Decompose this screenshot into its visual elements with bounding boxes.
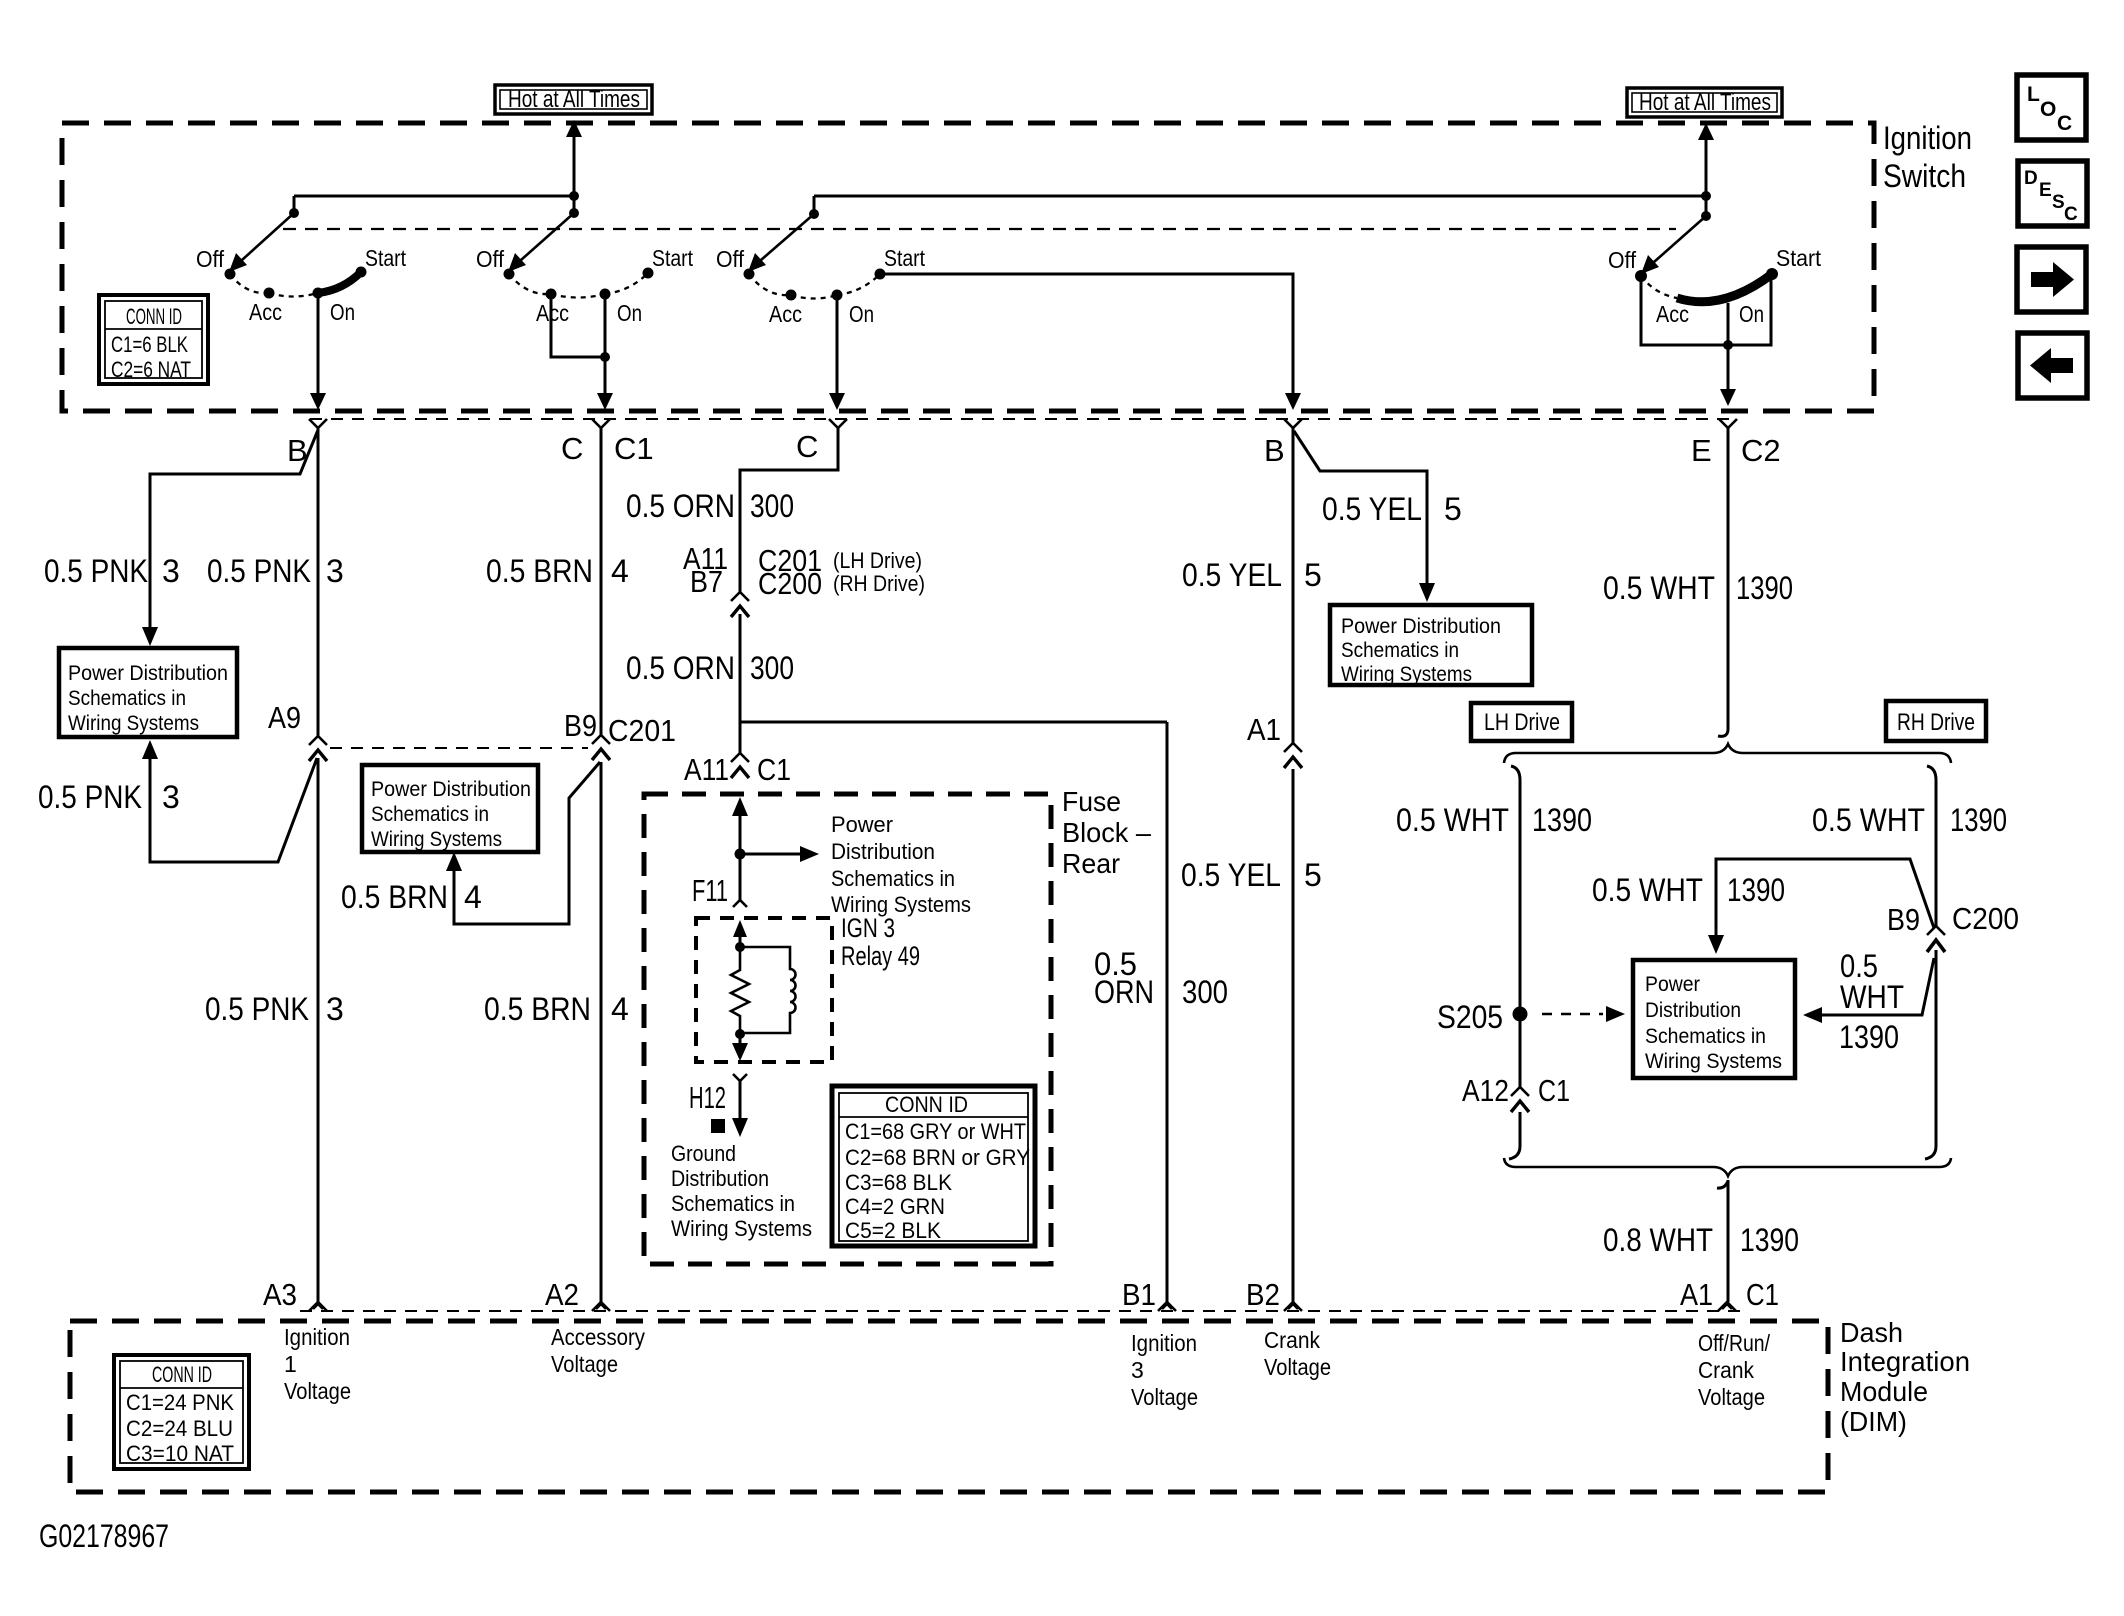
- svg-text:A12: A12: [1462, 1073, 1509, 1108]
- svg-text:A11: A11: [684, 752, 729, 787]
- svg-text:0.5 BRN: 0.5 BRN: [341, 879, 448, 915]
- wire: crank drop arrow at pin B: [1285, 393, 1301, 410]
- connector A12/C1: [1462, 1073, 1570, 1112]
- wire: horizontal bus y196 switch1 to feed1: [294, 195, 574, 198]
- svg-text:A9: A9: [268, 700, 301, 735]
- node S205: [1513, 1007, 1528, 1022]
- svg-text:0.5 WHT: 0.5 WHT: [1812, 802, 1925, 838]
- svg-text:G02178967: G02178967: [39, 1518, 169, 1554]
- Power Distribution box 2: [362, 765, 538, 852]
- wire: SW3 Start contact across to crank drop: [880, 274, 1293, 396]
- svg-text:CONN ID: CONN ID: [885, 1092, 968, 1117]
- svg-text:C: C: [2057, 112, 2072, 135]
- svg-text:1390: 1390: [1950, 802, 2007, 838]
- svg-text:C1: C1: [757, 752, 791, 787]
- node relay top junction: [735, 942, 745, 952]
- svg-text:C: C: [2064, 204, 2078, 225]
- svg-text:3: 3: [326, 553, 344, 589]
- svg-text:C5=2 BLK: C5=2 BLK: [845, 1218, 941, 1243]
- connector H12: [689, 1074, 747, 1115]
- wire: SW2 On contact down to pin C arrow: [597, 294, 613, 410]
- connector A1 (crank run): [1247, 712, 1302, 768]
- svg-text:B1: B1: [1122, 1277, 1156, 1312]
- icon box LOC: [2017, 75, 2086, 140]
- connector pin A3: [263, 1277, 327, 1312]
- ground marker square: [711, 1119, 725, 1133]
- svg-text:Power Distribution: Power Distribution: [371, 778, 531, 801]
- connector pin A1/C1: [1680, 1277, 1779, 1312]
- svg-text:0.5 ORN: 0.5 ORN: [626, 650, 735, 686]
- svg-text:Wiring Systems: Wiring Systems: [1341, 663, 1472, 686]
- svg-text:Voltage: Voltage: [1698, 1384, 1765, 1410]
- Dash Integration Module dashed box: [70, 1321, 1828, 1492]
- wire: horizontal bus y196 switch3 to feed2: [814, 195, 1706, 198]
- svg-text:Power: Power: [831, 812, 893, 837]
- connector pin B (crank): [1264, 419, 1302, 468]
- wire: SW1 On contact down to pin B arrow: [310, 293, 326, 410]
- caption Off/Run/ Crank Voltage: [1698, 1330, 1771, 1410]
- svg-text:Wiring Systems: Wiring Systems: [371, 828, 502, 851]
- svg-text:3: 3: [162, 779, 180, 815]
- connector pin E / C2 (SW4 output): [1691, 419, 1781, 468]
- switch SW1 contacts Off/Acc/On/Start: [196, 245, 407, 325]
- svg-text:0.5 YEL: 0.5 YEL: [1322, 491, 1422, 527]
- svg-text:Rear: Rear: [1062, 848, 1120, 879]
- Fuse Block - Rear title: [1062, 786, 1151, 879]
- svg-text:Voltage: Voltage: [1131, 1384, 1198, 1410]
- connector pin C (SW3 output): [796, 419, 847, 464]
- svg-text:5: 5: [1304, 857, 1322, 893]
- connector dashed line under ignition switch: [310, 418, 1736, 420]
- icon box left arrow: [2018, 333, 2087, 398]
- svg-text:C4=2 GRN: C4=2 GRN: [845, 1194, 945, 1219]
- svg-text:Schematics in: Schematics in: [371, 803, 489, 826]
- svg-text:Distribution: Distribution: [831, 839, 935, 864]
- wire: A9 down to DIM pin A3: [317, 758, 320, 1302]
- connector dashed line A9-B9: [330, 747, 588, 749]
- wire: drop to switch1 pivot: [293, 196, 296, 213]
- svg-text:Distribution: Distribution: [671, 1166, 769, 1191]
- connector pin C / C1 (SW2 output): [561, 419, 654, 466]
- svg-text:Off: Off: [716, 246, 745, 272]
- svg-text:C3=68 BLK: C3=68 BLK: [845, 1170, 952, 1195]
- svg-text:C: C: [796, 429, 818, 464]
- wire: arrow down out of relay: [732, 1034, 748, 1061]
- svg-text:S205: S205: [1437, 999, 1503, 1035]
- svg-text:0.5 PNK: 0.5 PNK: [205, 991, 309, 1027]
- svg-text:4: 4: [611, 553, 629, 589]
- svg-text:B7: B7: [690, 564, 723, 599]
- svg-text:Start: Start: [1776, 245, 1822, 271]
- svg-text:Ignition: Ignition: [1131, 1330, 1197, 1356]
- svg-text:O: O: [2040, 98, 2056, 121]
- wire: ORN run down to A11/C1: [739, 614, 742, 753]
- wire: branch to ignition-3 run: [740, 721, 1167, 724]
- svg-text:L: L: [2027, 83, 2040, 106]
- svg-text:Voltage: Voltage: [1264, 1354, 1331, 1380]
- svg-text:B: B: [1264, 433, 1285, 468]
- svg-text:E: E: [2039, 180, 2052, 201]
- fuse block rear dashed box: [644, 794, 1051, 1264]
- wire: A9 branch back up to Power Distribution box 1: [142, 740, 317, 862]
- fuse F11: [692, 854, 747, 908]
- svg-text:H12: H12: [689, 1080, 726, 1115]
- node relay bottom junction: [735, 1029, 745, 1039]
- svg-text:C1=24 PNK: C1=24 PNK: [126, 1390, 234, 1415]
- switch SW3 contacts Off/Acc/On/Start: [716, 245, 926, 327]
- wire: arrow up into fuse block: [732, 797, 748, 854]
- CONN ID box (DIM): [114, 1355, 249, 1469]
- svg-text:0.8 WHT: 0.8 WHT: [1603, 1222, 1713, 1258]
- svg-text:C2=24 BLU: C2=24 BLU: [126, 1416, 233, 1441]
- svg-text:4: 4: [611, 991, 629, 1027]
- connector pin B1: [1122, 1277, 1176, 1312]
- wire: B9 branch to Power Distribution box 2: [446, 762, 600, 924]
- svg-text:Power: Power: [1645, 973, 1700, 996]
- Hot at All Times box 2: [1627, 88, 1782, 117]
- label 0.5 BRN 4 (lower): [484, 991, 629, 1027]
- svg-text:C200: C200: [1952, 901, 2019, 936]
- svg-text:Power Distribution: Power Distribution: [68, 662, 228, 685]
- svg-text:1390: 1390: [1740, 1222, 1799, 1258]
- connector A11/C1: [684, 752, 791, 787]
- wire: merged run down to DIM pin A1/C1: [1717, 1180, 1728, 1302]
- Hot at All Times box 1: [495, 85, 652, 114]
- label 0.8 WHT 1390: [1603, 1222, 1799, 1258]
- wire arrow into Power Distribution box 3: [1419, 583, 1435, 602]
- wire: RH branch upper: [1927, 766, 1936, 926]
- svg-text:300: 300: [750, 488, 794, 524]
- dashed arrow S205 to box 4: [1542, 1006, 1625, 1022]
- wire: RH branch lower: [1925, 950, 1936, 1159]
- svg-text:Voltage: Voltage: [284, 1378, 351, 1404]
- connector B9/C200: [1887, 901, 2019, 952]
- wire: SW2 Acc contact branch: [551, 294, 605, 357]
- svg-text:Schematics in: Schematics in: [68, 687, 186, 710]
- label 0.5 WHT 1390 (LH): [1396, 802, 1592, 838]
- svg-text:1390: 1390: [1839, 1019, 1899, 1055]
- svg-text:C2: C2: [1741, 433, 1781, 468]
- label 0.5 ORN 300 (second): [626, 650, 794, 686]
- svg-text:Relay 49: Relay 49: [841, 941, 920, 971]
- caption Accessory Voltage: [551, 1324, 645, 1377]
- svg-text:C1=6 BLK: C1=6 BLK: [111, 332, 188, 357]
- node SW2 Acc/On junction: [600, 352, 610, 362]
- svg-text:F11: F11: [692, 873, 728, 908]
- connector pin B (SW1 output): [287, 419, 327, 468]
- svg-text:C1=68 GRY or WHT: C1=68 GRY or WHT: [845, 1119, 1026, 1144]
- caption Ignition 1 Voltage: [284, 1324, 351, 1404]
- svg-text:4: 4: [464, 879, 482, 915]
- coil (relay): [740, 947, 796, 1033]
- wire: pin C jog down to ORN run: [740, 428, 838, 592]
- svg-text:A2: A2: [545, 1277, 579, 1312]
- svg-text:5: 5: [1444, 491, 1462, 527]
- svg-text:0.5 YEL: 0.5 YEL: [1182, 557, 1282, 593]
- svg-text:D: D: [2024, 168, 2038, 189]
- svg-text:Crank: Crank: [1698, 1357, 1754, 1383]
- svg-text:3: 3: [326, 991, 344, 1027]
- caption Ignition 3 Voltage: [1131, 1330, 1198, 1410]
- wire: branch from pin B to PNK fuse arrow: [150, 430, 318, 630]
- svg-text:Voltage: Voltage: [551, 1351, 618, 1377]
- wire arrow into Power Distribution box 4 (right): [1803, 1007, 1822, 1023]
- wire: drop to switch3 pivot: [813, 196, 816, 214]
- svg-text:Off: Off: [476, 246, 505, 272]
- switch SW4: rotor arrow to Off: [1641, 216, 1706, 274]
- wire: C200 tap to left arrow: [1820, 958, 1934, 1015]
- svg-text:C2=68 BRN or GRY: C2=68 BRN or GRY: [845, 1145, 1030, 1170]
- wire: LH branch: [1511, 766, 1520, 1087]
- wire: arrow down to ground note: [732, 1081, 748, 1137]
- svg-text:B9: B9: [1887, 902, 1920, 937]
- label 0.5 WHT 1390 (E run): [1603, 570, 1793, 606]
- label 0.5 PNK 3 (return branch): [38, 779, 180, 815]
- wire: feed arrow up to Hot box 1: [566, 120, 582, 196]
- svg-text:S: S: [2052, 192, 2065, 213]
- svg-text:300: 300: [750, 650, 794, 686]
- dashed rotor line inside ignition box: [283, 228, 1676, 230]
- switch SW1: rotor arrow to Off: [229, 213, 294, 272]
- switch SW2: rotor arrow to Off: [508, 213, 574, 272]
- svg-text:(RH Drive): (RH Drive): [833, 571, 925, 596]
- svg-text:0.5 BRN: 0.5 BRN: [484, 991, 591, 1027]
- label 0.5 ORN 300 (ignition-3 run): [1094, 946, 1228, 1010]
- svg-text:0.5 YEL: 0.5 YEL: [1181, 857, 1281, 893]
- wire: RH tap to center arrow: [1716, 859, 1934, 938]
- label 0.5 BRN 4 (upper): [486, 553, 629, 589]
- connector B9 / C201: [564, 708, 676, 760]
- svg-text:0.5 PNK: 0.5 PNK: [38, 779, 142, 815]
- svg-text:C: C: [561, 431, 583, 466]
- ground note text: [671, 1141, 812, 1241]
- svg-text:Integration: Integration: [1840, 1346, 1970, 1377]
- caption Crank Voltage: [1264, 1327, 1331, 1380]
- label 0.5 WHT 1390 (center): [1592, 872, 1785, 908]
- svg-text:0.5 WHT: 0.5 WHT: [1396, 802, 1509, 838]
- Power Distribution box 1: [59, 648, 237, 737]
- svg-text:C1: C1: [614, 431, 654, 466]
- svg-text:C200: C200: [758, 566, 822, 601]
- wire: pin B (crank) down to A1 connector: [1292, 428, 1295, 743]
- wire: feed arrow up to Hot box 2: [1698, 123, 1714, 196]
- label 0.5 PNK 3 (main): [207, 553, 344, 589]
- connector pin A2: [545, 1277, 610, 1312]
- connector A11/B7 C201/C200: [683, 541, 925, 617]
- wire: pin E/C2 down to LH/RH split: [1718, 428, 1728, 736]
- wire arrow into Power Distribution box 4 (top): [1708, 935, 1724, 954]
- switch SW2 contacts Off/Acc/On/Start: [476, 245, 694, 326]
- svg-text:RH Drive: RH Drive: [1897, 709, 1975, 736]
- wire: crank run down to DIM pin B2: [1292, 769, 1295, 1302]
- svg-text:Wiring Systems: Wiring Systems: [68, 712, 199, 735]
- svg-text:(LH Drive): (LH Drive): [833, 548, 922, 573]
- svg-text:E: E: [1691, 433, 1712, 468]
- svg-text:On: On: [849, 301, 874, 327]
- svg-text:(DIM): (DIM): [1840, 1406, 1907, 1437]
- svg-text:Ground: Ground: [671, 1141, 736, 1166]
- svg-text:3: 3: [1131, 1357, 1144, 1383]
- wire arrow into Power Distribution box 1: [142, 627, 158, 646]
- svg-text:Off: Off: [196, 246, 225, 272]
- svg-text:Power Distribution: Power Distribution: [1341, 615, 1501, 638]
- svg-text:ORN: ORN: [1094, 974, 1154, 1010]
- svg-text:1: 1: [284, 1351, 297, 1377]
- svg-text:IGN 3: IGN 3: [841, 913, 895, 943]
- svg-text:C2=6 NAT: C2=6 NAT: [111, 357, 191, 382]
- svg-text:C201: C201: [608, 713, 676, 748]
- label 0.5 YEL 5 (branch): [1322, 491, 1462, 527]
- svg-text:0.5 BRN: 0.5 BRN: [486, 553, 593, 589]
- svg-text:Crank: Crank: [1264, 1327, 1320, 1353]
- svg-text:Module: Module: [1840, 1376, 1928, 1407]
- svg-text:C3=10 NAT: C3=10 NAT: [126, 1441, 234, 1466]
- svg-text:B2: B2: [1246, 1277, 1280, 1312]
- node junction at (574,196): [569, 191, 579, 201]
- connector dashed line above DIM: [300, 1310, 1740, 1312]
- svg-text:CONN ID: CONN ID: [126, 304, 182, 329]
- svg-text:Schematics in: Schematics in: [671, 1191, 795, 1216]
- svg-text:Start: Start: [884, 245, 926, 271]
- svg-text:Hot at All Times: Hot at All Times: [508, 86, 640, 113]
- svg-text:Hot at All Times: Hot at All Times: [1639, 89, 1771, 116]
- svg-text:0.5 ORN: 0.5 ORN: [626, 488, 735, 524]
- svg-text:C1: C1: [1538, 1073, 1570, 1108]
- svg-text:Acc: Acc: [1656, 301, 1689, 327]
- label 0.5 ORN 300 (upper): [626, 488, 794, 524]
- CONN ID box (ignition switch): [99, 295, 208, 384]
- connector pin B2: [1246, 1277, 1302, 1312]
- svg-text:1390: 1390: [1532, 802, 1592, 838]
- label IGN 3 Relay 49: [841, 913, 920, 971]
- svg-text:CONN ID: CONN ID: [152, 1362, 212, 1387]
- node junction at (1706,196): [1701, 191, 1711, 201]
- ignition switch dashed box: [62, 123, 1874, 411]
- svg-text:Wiring Systems: Wiring Systems: [671, 1216, 812, 1241]
- svg-text:B9: B9: [564, 708, 597, 743]
- svg-text:On: On: [330, 299, 355, 325]
- wire: B9 down to DIM pin A2: [600, 762, 603, 1302]
- Power Distribution box 3: [1330, 605, 1532, 686]
- svg-text:Off/Run/: Off/Run/: [1698, 1330, 1771, 1356]
- wire: pin C/C1 down to connector B9: [600, 428, 603, 735]
- svg-text:Distribution: Distribution: [1645, 999, 1741, 1022]
- svg-text:0.5 WHT: 0.5 WHT: [1603, 570, 1715, 606]
- node switch2 pivot: [569, 208, 579, 218]
- Power Distribution box 4: [1633, 960, 1795, 1078]
- svg-text:Start: Start: [365, 245, 407, 271]
- svg-text:Acc: Acc: [249, 299, 282, 325]
- relay IGN 3 Relay 49 dashed box: [696, 918, 832, 1062]
- label 0.5 PNK 3 (branch): [44, 553, 180, 589]
- svg-text:Switch: Switch: [1883, 158, 1966, 194]
- wire: LH branch lower: [1509, 1112, 1520, 1159]
- svg-text:Acc: Acc: [769, 301, 802, 327]
- wire: pin B down to connector A9: [317, 428, 320, 736]
- wire: drop to switch4 pivot: [1705, 196, 1708, 216]
- svg-text:Schematics in: Schematics in: [1341, 639, 1459, 662]
- svg-text:Start: Start: [652, 245, 694, 271]
- node switch3 pivot: [809, 209, 819, 219]
- svg-text:1390: 1390: [1727, 872, 1785, 908]
- icon box right arrow: [2017, 247, 2086, 312]
- svg-text:C1: C1: [1746, 1277, 1779, 1312]
- switch SW4 contacts and frame: [1608, 245, 1822, 350]
- svg-text:A1: A1: [1247, 712, 1281, 747]
- svg-text:Dash: Dash: [1840, 1317, 1903, 1348]
- label 0.5 PNK 3 (lower): [205, 991, 344, 1027]
- svg-text:On: On: [1739, 301, 1764, 327]
- connector A9: [268, 700, 327, 761]
- svg-text:3: 3: [162, 553, 180, 589]
- svg-text:LH Drive: LH Drive: [1484, 709, 1560, 736]
- svg-text:0.5 WHT: 0.5 WHT: [1592, 872, 1703, 908]
- svg-text:5: 5: [1304, 557, 1322, 593]
- svg-text:Fuse: Fuse: [1062, 786, 1121, 817]
- label 0.5 WHT 1390 (stacked): [1839, 948, 1904, 1055]
- svg-text:Schematics in: Schematics in: [831, 866, 955, 891]
- brace split LH/RH: [1504, 744, 1951, 763]
- svg-text:Schematics in: Schematics in: [1645, 1025, 1766, 1048]
- svg-text:300: 300: [1182, 974, 1228, 1010]
- svg-text:1390: 1390: [1736, 570, 1793, 606]
- svg-text:A1: A1: [1680, 1277, 1713, 1312]
- svg-text:0.5 PNK: 0.5 PNK: [44, 553, 148, 589]
- label 0.5 WHT 1390 (RH): [1812, 802, 2007, 838]
- brace merge to DIM: [1504, 1158, 1951, 1176]
- node fuse junction: [735, 849, 746, 860]
- fuse note text: [831, 812, 971, 917]
- svg-text:Ignition: Ignition: [284, 1324, 350, 1350]
- svg-text:Ignition: Ignition: [1883, 120, 1972, 156]
- svg-text:Accessory: Accessory: [551, 1324, 645, 1350]
- RH Drive box: [1886, 701, 1986, 741]
- svg-text:Block –: Block –: [1062, 817, 1151, 848]
- wire: branch from pin B to YEL arrow: [1294, 431, 1427, 586]
- wire: arrow to fuse note text: [740, 846, 819, 862]
- wire: SW4 output down to pin E arrow: [1720, 345, 1736, 406]
- node switch4 pivot: [1701, 211, 1711, 221]
- svg-text:0.5 PNK: 0.5 PNK: [207, 553, 311, 589]
- node switch1 pivot: [289, 208, 299, 218]
- svg-text:Off: Off: [1608, 247, 1637, 273]
- label 0.5 BRN 4 (branch): [341, 879, 482, 915]
- label 0.5 YEL 5 (main lower): [1181, 857, 1322, 893]
- svg-text:On: On: [617, 300, 642, 326]
- Dash Integration Module (DIM) title: [1840, 1317, 1970, 1437]
- wire: SW3 On contact down to pin C arrow: [829, 295, 845, 410]
- svg-text:A3: A3: [263, 1277, 297, 1312]
- switch SW3: rotor arrow to Off: [748, 214, 814, 272]
- svg-text:Wiring Systems: Wiring Systems: [1645, 1050, 1782, 1073]
- wire: drop to switch2 pivot: [573, 196, 576, 213]
- resistor (relay): [731, 947, 749, 1034]
- wire: arrow up inside relay: [733, 920, 747, 947]
- svg-text:WHT: WHT: [1840, 979, 1904, 1015]
- CONN ID box (fuse block): [832, 1086, 1035, 1246]
- label 0.5 YEL 5 (main upper): [1182, 557, 1322, 593]
- wire: ignition-3 run down to DIM pin B1: [1166, 722, 1169, 1302]
- icon box DESC: [2018, 161, 2087, 226]
- LH Drive box: [1471, 703, 1572, 741]
